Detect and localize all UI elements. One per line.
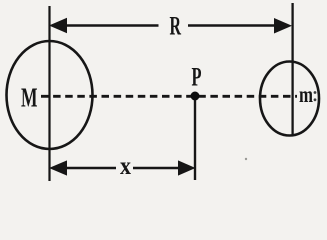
- svg-text:M: M: [21, 82, 38, 112]
- dimension R arrow right shaft: [188, 24, 278, 27]
- svg-text:P: P: [192, 63, 202, 92]
- node P dot: [191, 92, 200, 101]
- mass m circle: [260, 62, 319, 136]
- dimension R arrowhead left: [49, 18, 67, 33]
- right reference line: [291, 3, 293, 135]
- dashed center line: [41, 95, 297, 98]
- left reference line: [48, 6, 50, 181]
- svg-text:m: m: [299, 82, 313, 107]
- dimension x arrowhead left: [49, 160, 67, 175]
- mass M circle: [7, 41, 93, 149]
- dimension R arrow left shaft: [64, 24, 159, 27]
- scan artifact colon after m: [314, 91, 317, 94]
- vertical line below P: [194, 98, 196, 180]
- dimension x arrow right shaft: [133, 167, 181, 170]
- dimension R arrowhead right: [274, 18, 292, 34]
- dimension x arrowhead right: [178, 160, 196, 175]
- scan speck: [245, 158, 247, 160]
- dimension x arrow left shaft: [64, 167, 116, 170]
- background paper: [0, 0, 327, 187]
- svg-text:R: R: [170, 12, 182, 41]
- svg-text:x: x: [120, 153, 131, 180]
